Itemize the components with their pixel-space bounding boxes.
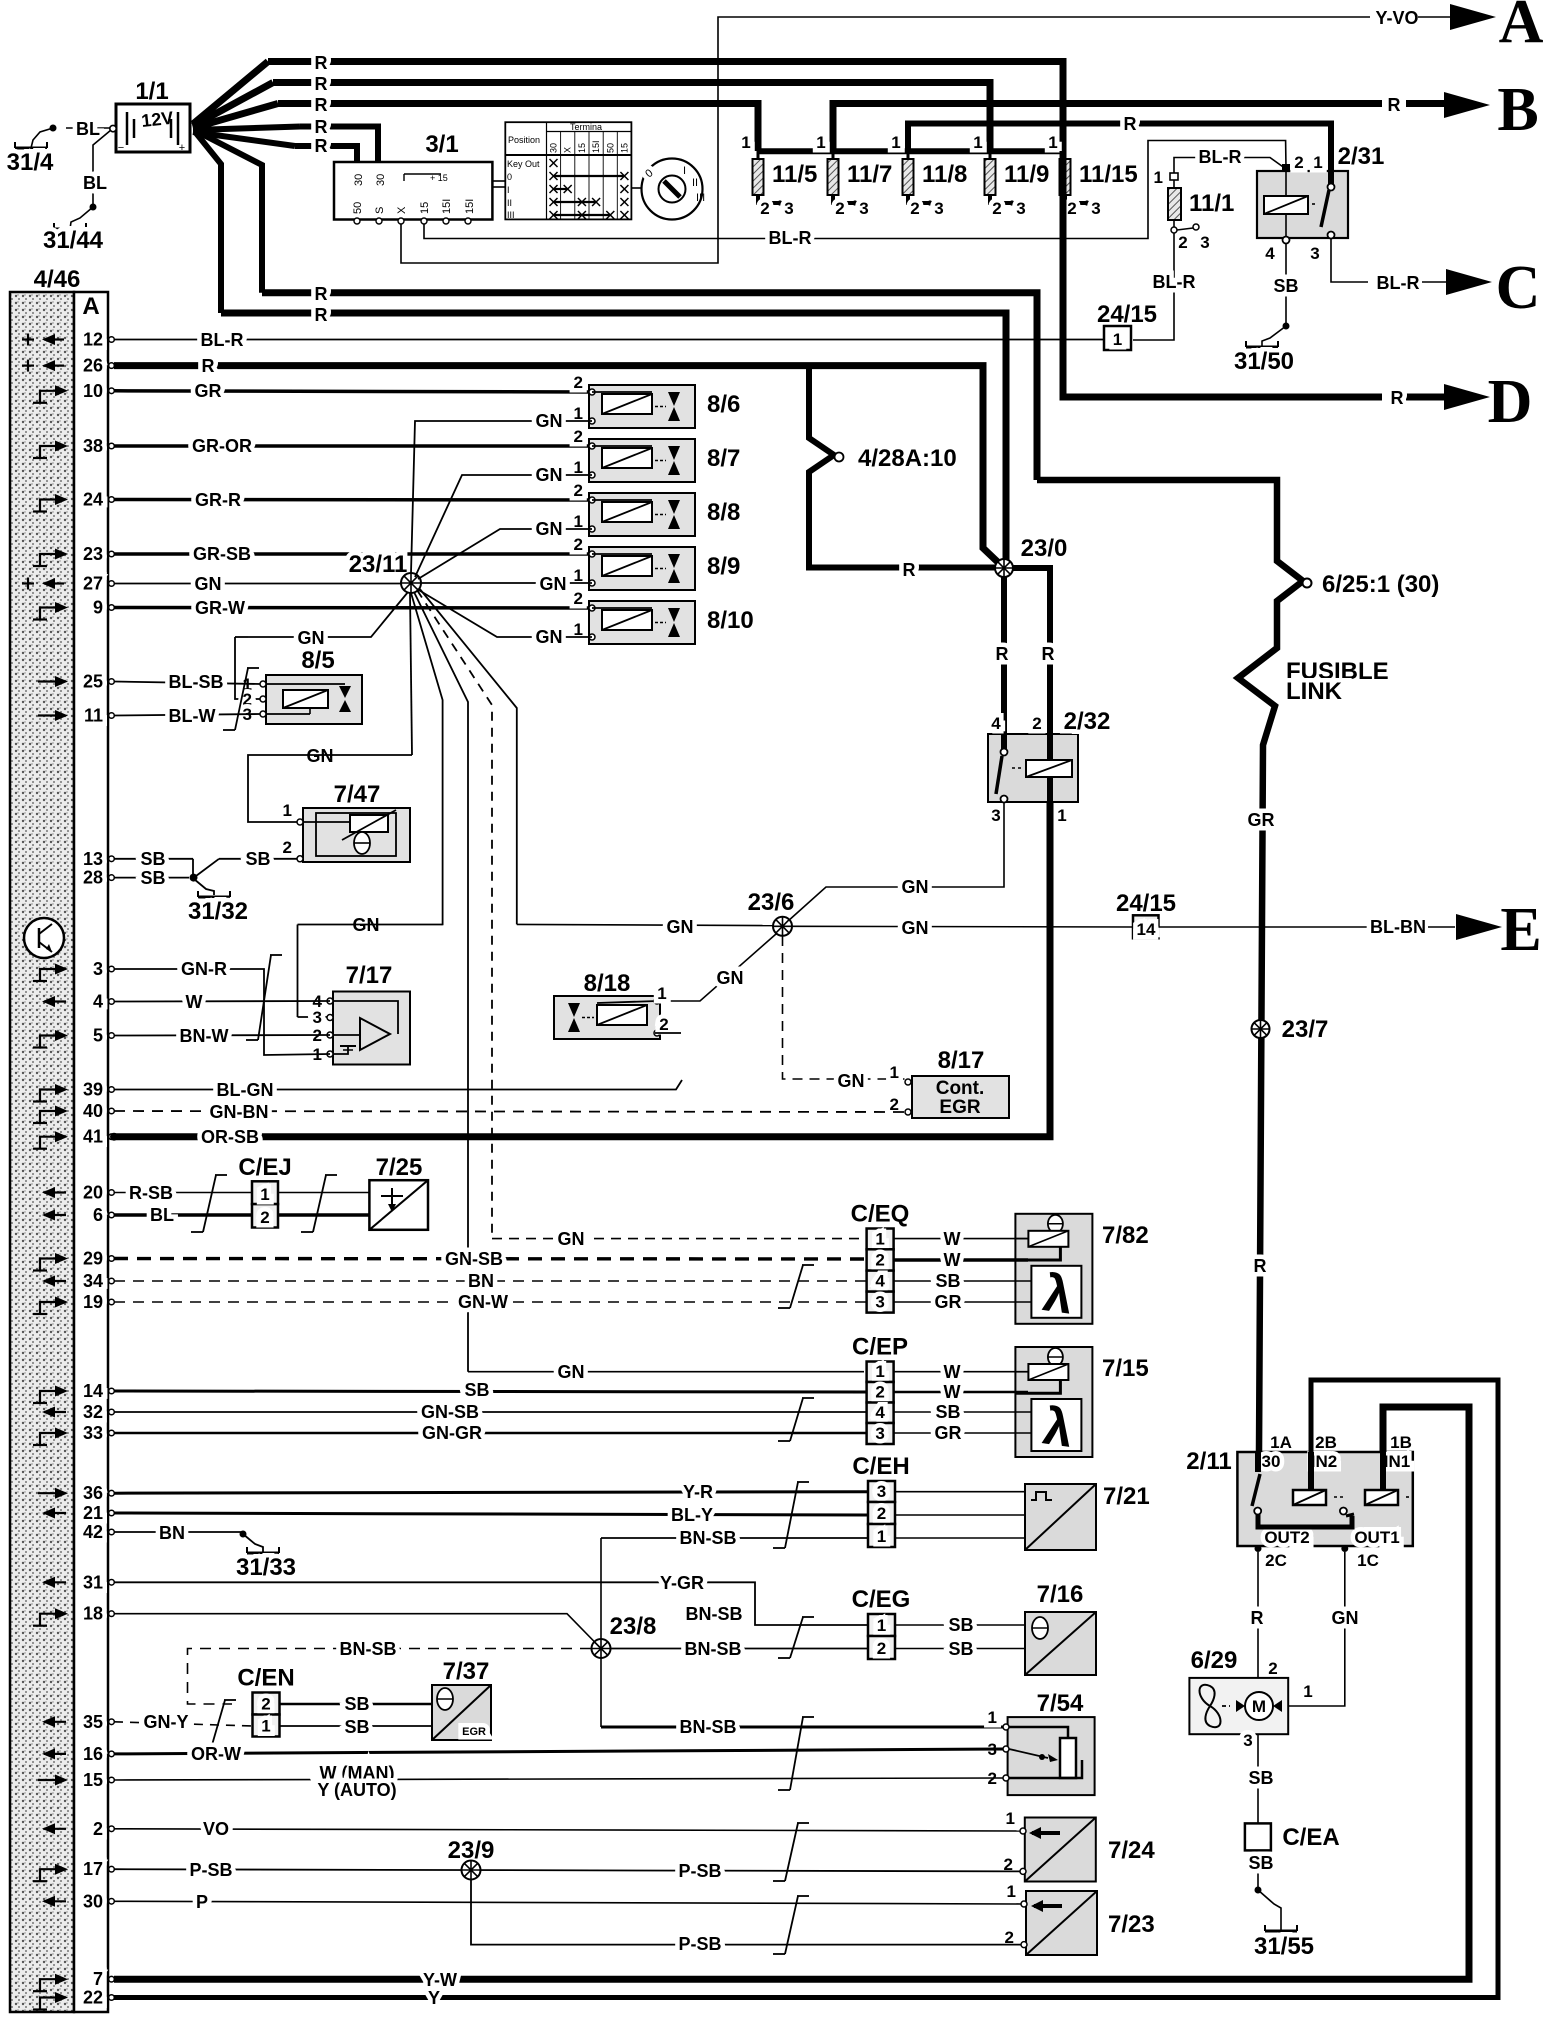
wire R bus jog to relay 2/31 pin 1 [908,124,1331,186]
svg-text:2: 2 [283,838,292,857]
svg-text:23/6: 23/6 [748,889,795,916]
svg-text:7: 7 [93,1969,103,1989]
svg-text:7/15: 7/15 [1102,1355,1149,1382]
svg-text:1: 1 [988,1708,997,1727]
wire 11/1 pin2 down to 24/15 [1133,233,1174,340]
svg-text:2C: 2C [1265,1551,1287,1570]
wire R to arrow B [833,104,1382,152]
svg-text:1: 1 [877,1527,886,1546]
svg-text:R: R [315,95,328,115]
svg-text:23: 23 [83,544,103,564]
wires BL-SB / BL-W to 8/5 [114,682,260,685]
svg-text:OUT2: OUT2 [1264,1528,1309,1547]
key cylinder [492,180,505,182]
svg-text:50: 50 [605,143,615,153]
svg-text:GR: GR [195,381,222,401]
svg-text:GN: GN [536,519,563,539]
wire BL-R from 15 pin [424,141,1286,239]
svg-text:3: 3 [784,199,793,218]
svg-text:4/46: 4/46 [34,266,81,293]
svg-text:+ 15: + 15 [430,173,448,183]
svg-text:Y-VO: Y-VO [1375,8,1418,28]
svg-text:GN: GN [558,1362,585,1382]
svg-text:GR-W: GR-W [195,598,245,618]
dashed GN 23/6 to 8/17 pin1 [783,936,906,1079]
wire Y-W pin7 to 2/11 IN1 [114,1407,1469,1979]
svg-text:IN1: IN1 [1384,1452,1410,1471]
svg-text:BN-SB: BN-SB [685,1639,742,1659]
svg-text:SB: SB [935,1271,960,1291]
svg-text:7/21: 7/21 [1103,1483,1150,1510]
oxygen sensor 7/15 [1015,1347,1092,1457]
dashed wires pins 29/34/19 to C/EQ [114,1257,866,1261]
svg-text:30: 30 [549,143,559,153]
dashed GN star to C/EQ pin1 [492,1238,864,1240]
svg-text:7/54: 7/54 [1037,1690,1084,1717]
wire Y-GR pin31 to C/EG pin1 [114,1582,868,1625]
svg-text:OR-SB: OR-SB [201,1127,259,1147]
svg-text:SB: SB [344,1717,369,1737]
svg-text:BL-R: BL-R [1153,272,1196,292]
svg-text:15: 15 [83,1770,103,1790]
junction 23/7 [1252,1020,1270,1038]
svg-text:4: 4 [93,992,103,1012]
svg-text:III: III [507,210,515,220]
svg-text:50: 50 [352,202,364,214]
svg-text:1: 1 [890,1063,899,1082]
svg-text:BN-SB: BN-SB [680,1717,737,1737]
svg-text:31: 31 [83,1572,103,1592]
svg-text:+: + [179,142,185,154]
svg-text:15: 15 [619,143,629,153]
svg-text:EGR: EGR [939,1097,980,1118]
svg-text:8/8: 8/8 [707,499,740,526]
fuse 11/1 [1170,173,1178,180]
svg-text:12: 12 [83,330,103,350]
svg-text:7/17: 7/17 [346,962,393,989]
wire 11/1 pin1 to 2/31 pin2 [1174,158,1286,174]
injector wires GR.. [114,391,592,392]
svg-text:7/47: 7/47 [334,781,381,808]
wire VO pin2 to 7/24 pin1 [114,1829,1020,1831]
wires to C/EH [114,1492,868,1494]
svg-text:SB: SB [1248,1853,1273,1873]
svg-text:15I: 15I [464,199,476,214]
injector 8/7 [589,439,695,482]
svg-text:C/EG: C/EG [852,1586,911,1613]
svg-text:SB: SB [948,1639,973,1659]
wire BL-R pin12 to 24/15 [114,339,1104,341]
svg-text:6: 6 [93,1205,103,1225]
svg-text:Position: Position [508,135,540,145]
svg-text:35: 35 [83,1712,103,1732]
svg-text:1C: 1C [1357,1551,1379,1570]
svg-text:1: 1 [1313,153,1322,172]
svg-text:1: 1 [877,1616,886,1635]
wire BL-R 2/31 pin3 to arrow C [1331,239,1368,282]
svg-text:BL-R: BL-R [1377,273,1420,293]
svg-text:25: 25 [83,672,103,692]
svg-text:C/EJ: C/EJ [238,1154,291,1181]
svg-text:GR-R: GR-R [195,490,241,510]
svg-text:2B: 2B [1315,1433,1337,1452]
svg-text:BL-BN: BL-BN [1370,917,1426,937]
svg-text:3: 3 [1243,1731,1252,1750]
svg-text:2: 2 [93,1819,103,1839]
svg-text:R-SB: R-SB [129,1183,173,1203]
svg-text:BN-SB: BN-SB [686,1604,743,1624]
svg-text:15I: 15I [441,199,453,214]
wire R pin26 to 23/0 [114,366,1004,568]
wire GN OUT1 to 6/29 pin1 [1288,1552,1345,1706]
svg-text:BL: BL [83,173,107,193]
svg-text:33: 33 [83,1423,103,1443]
svg-text:23/0: 23/0 [1021,535,1068,562]
svg-text:31/4: 31/4 [7,149,54,176]
svg-text:2: 2 [260,1208,269,1227]
ignition switch position table [505,122,631,219]
svg-text:8/9: 8/9 [707,553,740,580]
svg-text:R: R [315,305,328,325]
dashed GN-Y pin35 to C/EN pin1 [114,1722,252,1726]
svg-text:BL-R: BL-R [201,330,244,350]
svg-text:R: R [202,356,215,376]
svg-text:BN-SB: BN-SB [340,1639,397,1659]
svg-text:30: 30 [1262,1452,1281,1471]
svg-text:1: 1 [283,801,292,820]
wire BL to 31/44 [93,130,111,205]
svg-text:M: M [1252,1697,1266,1716]
svg-text:38: 38 [83,436,103,456]
svg-text:GN: GN [195,574,222,594]
wires R-SB / BL to C/EJ [114,1192,252,1194]
svg-text:2/31: 2/31 [1338,143,1385,170]
svg-text:GN-Y: GN-Y [144,1712,189,1732]
injector 8/6 [589,385,695,428]
svg-text:Key Out: Key Out [507,159,540,169]
svg-text:1: 1 [1007,1882,1016,1901]
svg-text:P-SB: P-SB [678,1861,721,1881]
svg-text:31/32: 31/32 [188,898,248,925]
svg-text:P-SB: P-SB [678,1934,721,1954]
svg-text:3: 3 [1091,199,1100,218]
svg-text:4: 4 [875,1272,885,1291]
svg-text:X: X [396,206,408,214]
svg-text:8/17: 8/17 [938,1047,985,1074]
svg-text:34: 34 [83,1271,103,1291]
svg-text:BL-W: BL-W [169,706,216,726]
wire GN star to C/EP pin1 [468,1371,864,1373]
svg-text:3: 3 [1310,244,1319,263]
svg-text:EGR: EGR [462,1726,486,1738]
svg-text:9: 9 [93,598,103,618]
svg-text:22: 22 [83,1988,103,2008]
wire GN 23/6 diagonal to 8/18 [652,934,776,1001]
svg-text:SB: SB [245,849,270,869]
wire R lower pair from battery [262,293,1037,480]
svg-text:BL: BL [150,1205,174,1225]
svg-text:R: R [1254,1256,1267,1276]
svg-text:20: 20 [83,1183,103,1203]
svg-text:8/6: 8/6 [707,391,740,418]
svg-text:1: 1 [891,133,900,152]
svg-text:GN: GN [1332,1608,1359,1628]
svg-text:4: 4 [991,714,1001,733]
svg-text:31/33: 31/33 [236,1554,296,1581]
wire R2 to fuse 11/9 [273,83,990,152]
svg-text:11/1: 11/1 [1189,190,1234,217]
svg-text:12V: 12V [140,108,174,131]
svg-text:15I: 15I [591,140,601,153]
svg-text:29: 29 [83,1249,103,1269]
wire BL-GN pin39 [114,1080,682,1090]
svg-text:23/7: 23/7 [1282,1016,1329,1043]
svg-text:23/8: 23/8 [610,1613,657,1640]
svg-text:Y-W: Y-W [423,1970,457,1990]
svg-text:2: 2 [875,1251,884,1270]
dashed GN-BN pin40 to 8/17 pin2 [114,1111,905,1112]
transistor symbol on ECU [24,918,64,958]
svg-text:I: I [683,165,686,177]
svg-text:GN: GN [667,917,694,937]
svg-text:R: R [1124,114,1137,134]
svg-text:Y-GR: Y-GR [660,1573,704,1593]
fusible link from R wire [1037,480,1303,1452]
svg-text:8/10: 8/10 [707,607,754,634]
svg-text:31/50: 31/50 [1234,348,1294,375]
wire Y pin22 to 2/11 IN2 [114,1380,1498,1998]
svg-text:1: 1 [875,1229,884,1248]
svg-text:3: 3 [93,959,103,979]
svg-text:GN-BN: GN-BN [210,1102,269,1122]
svg-text:24/15: 24/15 [1097,301,1157,328]
svg-text:7/37: 7/37 [443,1658,490,1685]
injector 8/8 [589,493,695,536]
wire X pin to Y-VO / A [401,17,1370,263]
svg-text:24: 24 [83,490,103,510]
svg-text:BL-GN: BL-GN [217,1080,274,1100]
svg-text:2: 2 [910,199,919,218]
svg-text:2: 2 [1178,233,1187,252]
svg-text:GN-GR: GN-GR [422,1423,482,1443]
svg-text:7/23: 7/23 [1108,1911,1155,1938]
svg-text:2: 2 [261,1695,270,1714]
svg-text:GN-W: GN-W [458,1292,508,1312]
svg-text:OUT1: OUT1 [1354,1528,1399,1547]
svg-text:GN: GN [902,918,929,938]
svg-text:II: II [692,177,698,189]
svg-text:Termina: Termina [570,122,602,132]
svg-text:S: S [374,207,386,214]
svg-text:1: 1 [657,984,666,1003]
wire GN star to 23/6 [517,924,773,925]
svg-text:SB: SB [140,849,165,869]
ground 31/4 [15,147,47,150]
svg-text:A: A [82,293,99,320]
svg-text:GR-SB: GR-SB [193,544,251,564]
svg-text:R: R [1042,644,1055,664]
svg-text:BL-R: BL-R [769,228,812,248]
svg-text:C/EH: C/EH [852,1453,909,1480]
svg-text:GN: GN [536,465,563,485]
svg-text:24/15: 24/15 [1116,890,1176,917]
svg-text:1: 1 [875,1362,884,1381]
injector 8/9 [589,547,695,590]
svg-text:2/11: 2/11 [1186,1448,1231,1475]
wires pins 14/32/33 to C/EP [114,1391,866,1392]
svg-text:1: 1 [260,1185,269,1204]
svg-text:C/EA: C/EA [1282,1824,1339,1851]
wire R to ignition switch 30 pins [300,127,378,164]
svg-text:R: R [315,53,328,73]
svg-text:GR: GR [935,1423,962,1443]
svg-text:Y: Y [428,1988,440,2008]
wires SB pins 13/28 to ground 31/32 and 7/47 [114,858,193,860]
svg-text:BN-SB: BN-SB [680,1528,737,1548]
svg-text:8/18: 8/18 [584,970,631,997]
svg-text:R: R [996,644,1009,664]
svg-text:W: W [944,1362,961,1382]
svg-text:36: 36 [83,1483,103,1503]
svg-text:3/1: 3/1 [425,131,458,158]
svg-text:1: 1 [1113,330,1122,349]
svg-text:SB: SB [140,868,165,888]
svg-text:32: 32 [83,1402,103,1422]
svg-text:LINK: LINK [1286,678,1343,705]
wire BN pin42 to ground 31/33 [114,1531,243,1533]
connector C/EA [1245,1823,1271,1850]
svg-text:5: 5 [93,1026,103,1046]
svg-text:GR: GR [935,1292,962,1312]
svg-text:R: R [1391,388,1404,408]
svg-text:27: 27 [83,574,103,594]
svg-text:GN: GN [838,1071,865,1091]
svg-text:R: R [1388,95,1401,115]
svg-text:P-SB: P-SB [189,1860,232,1880]
svg-text:2: 2 [877,1639,886,1658]
svg-text:1: 1 [1048,133,1057,152]
svg-text:C/EN: C/EN [237,1665,294,1692]
svg-text:GR: GR [1248,810,1275,830]
svg-text:7/16: 7/16 [1037,1581,1084,1608]
dashed BN-SB 23/8 to C/EN [188,1649,592,1705]
svg-text:2: 2 [1032,714,1041,733]
svg-text:BN: BN [468,1271,494,1291]
svg-text:GN: GN [298,628,325,648]
svg-text:GN: GN [717,968,744,988]
svg-text:GN: GN [558,1229,585,1249]
svg-text:11/5: 11/5 [772,161,817,188]
svg-text:11/7: 11/7 [847,161,892,188]
svg-text:R: R [1251,1608,1264,1628]
injector 8/18 [554,996,660,1039]
svg-text:VO: VO [203,1819,229,1839]
svg-text:W: W [944,1250,961,1270]
svg-text:W: W [944,1229,961,1249]
svg-text:W: W [186,992,203,1012]
2/11 internals [1255,1452,1261,1472]
svg-text:GN-SB: GN-SB [445,1249,503,1269]
svg-text:IN2: IN2 [1311,1452,1337,1471]
svg-text:8/5: 8/5 [301,647,334,674]
svg-text:2: 2 [574,589,583,608]
svg-text:B: B [1497,76,1538,144]
svg-text:11/9: 11/9 [1004,161,1049,188]
svg-text:15: 15 [577,143,587,153]
svg-text:3: 3 [1016,199,1025,218]
svg-text:7/25: 7/25 [376,1154,423,1181]
svg-text:R: R [315,74,328,94]
svg-text:3: 3 [859,199,868,218]
svg-text:BL: BL [76,119,100,139]
svg-text:3: 3 [313,1008,322,1027]
svg-text:1B: 1B [1390,1433,1412,1452]
svg-text:2: 2 [760,199,769,218]
relay 2/32 [988,734,1078,802]
svg-text:GR-OR: GR-OR [192,436,252,456]
svg-text:1: 1 [741,133,750,152]
svg-text:SB: SB [1248,1768,1273,1788]
svg-text:2: 2 [1294,153,1303,172]
svg-text:10: 10 [83,381,103,401]
svg-text:A: A [1499,0,1544,56]
star rays down fan [248,592,408,637]
svg-text:41: 41 [83,1127,103,1147]
svg-text:SB: SB [935,1402,960,1422]
svg-text:Y-R: Y-R [683,1482,713,1502]
GN wires from injectors to star [411,421,592,573]
svg-text:2: 2 [1268,1659,1277,1678]
svg-text:2: 2 [1067,199,1076,218]
svg-text:7/24: 7/24 [1108,1837,1155,1864]
svg-text:3: 3 [875,1424,884,1443]
oxygen sensor 7/82 [1015,1214,1092,1324]
wire R3 to fuse 11/5 [278,104,758,152]
svg-text:−: − [118,142,124,154]
wire SB 6/29 pin3 to C/EA [1257,1734,1259,1823]
svg-text:R: R [315,117,328,137]
svg-text:2: 2 [574,481,583,500]
svg-text:2: 2 [835,199,844,218]
wires SB to 7/37 [280,1703,433,1706]
wire R1 top to 11/15 feed and D [268,62,1063,152]
svg-text:16: 16 [83,1744,103,1764]
wires to 7/17 [114,969,330,1055]
svg-text:Cont.: Cont. [936,1078,985,1099]
svg-text:Y (AUTO): Y (AUTO) [317,1780,396,1800]
svg-text:C: C [1496,254,1541,322]
svg-text:30: 30 [353,174,365,186]
svg-text:III: III [696,192,705,204]
wire R 23/0 down to 2/32 pin4 [1001,577,1007,749]
svg-text:28: 28 [83,868,103,888]
svg-text:1/1: 1/1 [135,78,168,105]
svg-text:1: 1 [1006,1809,1015,1828]
svg-text:BL-R: BL-R [1199,147,1242,167]
svg-text:R: R [903,560,916,580]
svg-text:1A: 1A [1270,1433,1292,1452]
svg-text:BL-Y: BL-Y [671,1505,713,1525]
svg-text:6/25:1 (30): 6/25:1 (30) [1322,571,1439,598]
svg-text:BN-W: BN-W [180,1026,229,1046]
svg-text:1: 1 [1154,168,1163,187]
svg-text:8/7: 8/7 [707,445,740,472]
svg-text:GN: GN [307,746,334,766]
wire R OUT2 to 6/29 pin2 [1257,1552,1259,1677]
svg-text:15: 15 [419,202,431,214]
svg-text:11: 11 [84,706,103,726]
svg-text:31/44: 31/44 [43,227,104,254]
